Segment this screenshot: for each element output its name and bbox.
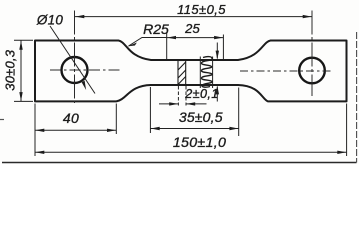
R25 leader arrow — [128, 43, 137, 47]
dimension 150±1,0 right extension line — [346, 104, 348, 157]
left hole vertical centerline — [74, 11, 76, 104]
coil break symbol right line — [212, 57, 214, 89]
Ø10 leader arrow — [82, 81, 86, 91]
drawing frame right border — [356, 32, 358, 163]
dimension 150±1,0 line — [35, 151, 347, 153]
dimension 2±0,1 line with outside arrows — [159, 103, 207, 105]
svg-text:2±0,1: 2±0,1 — [184, 87, 218, 101]
gauge width down arrow — [216, 43, 218, 59]
left hole horizontal centerline — [50, 69, 120, 71]
Ø10 leader line — [50, 26, 95, 94]
dimension 40 line — [35, 129, 116, 131]
stray scan mark left edge — [0, 119, 4, 121]
left hole circle — [62, 57, 88, 83]
25 right extension line — [222, 35, 224, 60]
dimension 35±0,5 line — [150, 128, 238, 130]
R25 leader shelf — [129, 38, 168, 47]
dimension 2±0,1 extension lines — [178, 86, 186, 106]
coil break squiggle — [201, 57, 212, 88]
svg-text:115±0,5: 115±0,5 — [177, 2, 226, 17]
svg-text:40: 40 — [63, 110, 79, 126]
dimension 30±0,3 line — [20, 41, 22, 102]
gauge width up arrow — [216, 87, 218, 102]
svg-text:150±1,0: 150±1,0 — [173, 135, 226, 151]
drawing frame bottom border — [2, 162, 357, 164]
left edge extension line down — [34, 104, 36, 157]
svg-text:35±0,5: 35±0,5 — [179, 109, 223, 125]
svg-text:R25: R25 — [143, 21, 169, 37]
svg-text:Ø10: Ø10 — [36, 12, 63, 27]
coil break symbol left line — [199, 57, 201, 89]
svg-text:25: 25 — [184, 21, 200, 36]
25 left extension line — [166, 33, 168, 60]
specimen outline (dog-bone) — [35, 41, 347, 102]
right hole circle — [299, 58, 325, 84]
dimension 115±0,5 line — [75, 16, 312, 18]
right hole horizontal centerline — [240, 70, 333, 72]
dimension 40 extension line — [115, 104, 117, 135]
dimension 30±0,3 extension lines — [14, 40, 33, 101]
dimension 35±0,5 extension lines — [150, 87, 238, 136]
right hole vertical centerline — [311, 11, 313, 97]
hatched notch section — [178, 61, 186, 85]
dimension 25 line — [167, 37, 224, 39]
svg-text:30±0,3: 30±0,3 — [3, 49, 18, 90]
